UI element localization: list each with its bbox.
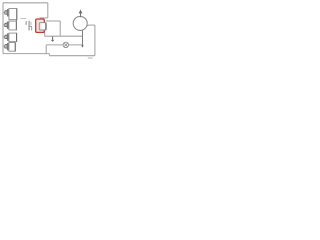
wire into R1 top (40, 17, 48, 19)
wire from box right (46, 20, 60, 22)
battery B4 (3, 43, 15, 52)
meter needle (79, 9, 83, 17)
switch lever mark (25, 21, 27, 25)
battery B3 (3, 33, 17, 42)
wire left (2, 3, 4, 54)
wire top (3, 2, 48, 4)
junction dot (81, 46, 84, 48)
wire lamp branch drop (45, 45, 47, 54)
switch body mark (29, 21, 32, 31)
switch light mark (30, 22, 32, 25)
wire battery right to switch (21, 18, 27, 20)
resistor R1 selected (red box) (36, 19, 45, 32)
lamp L1 (63, 42, 68, 47)
battery B2 (3, 21, 17, 30)
wire jog (48, 54, 50, 56)
watermark dash (88, 57, 93, 58)
wire lamp branch (46, 44, 83, 46)
wire mid drop (59, 21, 61, 36)
current arrow I1 (51, 37, 54, 42)
meter terminal tick (86, 25, 89, 27)
resistor R2 inner tint (40, 23, 42, 29)
meter M1 (73, 16, 87, 30)
battery B1 (3, 9, 17, 21)
resistor R2 right edge (45, 23, 47, 30)
wire to meter right terminal (88, 24, 95, 26)
wire top drop (47, 3, 49, 18)
wire box bottom stub (44, 30, 46, 36)
resistor R2 (gray box) (39, 23, 46, 30)
wire bottom-left (3, 53, 49, 55)
wire mid horizontal (45, 35, 83, 37)
meter bottom stub (82, 30, 84, 46)
wire bottom-right (49, 55, 95, 57)
wire right (94, 25, 96, 56)
